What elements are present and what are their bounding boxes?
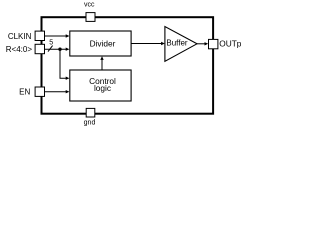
wire Control logic up to Divider — [101, 59, 103, 70]
pin CLKIN — [35, 31, 44, 40]
wire EN to Control logic — [45, 91, 67, 93]
svg-text:EN: EN — [19, 88, 30, 97]
bus slash — [48, 46, 53, 52]
buffer amplifier triangle — [165, 27, 197, 62]
svg-text:Divider: Divider — [90, 39, 116, 49]
pin OUTp — [209, 39, 218, 48]
svg-text:5: 5 — [49, 40, 53, 47]
pin vcc — [86, 13, 95, 22]
pin EN — [35, 87, 44, 96]
svg-text:CLKIN: CLKIN — [8, 32, 32, 41]
wire CLKIN to Divider — [45, 35, 67, 37]
block Divider — [70, 31, 131, 56]
svg-text:OUTp: OUTp — [219, 39, 242, 49]
svg-text:gnd: gnd — [84, 119, 96, 126]
svg-text:Buffer: Buffer — [166, 38, 188, 47]
block Control logic — [70, 70, 131, 101]
svg-text:logic: logic — [94, 83, 111, 93]
svg-text:R<4:0>: R<4:0> — [6, 45, 33, 54]
node junction on R bus — [58, 48, 61, 51]
outer block boundary — [42, 17, 214, 114]
wire R bus to Divider — [45, 48, 67, 50]
pin gnd — [86, 108, 95, 117]
wire Divider to Buffer — [131, 43, 162, 45]
wire Buffer to OUTp pin — [197, 43, 205, 45]
pin R<4:0> — [35, 44, 44, 53]
svg-text:vcc: vcc — [84, 2, 95, 9]
wire R bus branch down to Control logic — [60, 49, 66, 78]
